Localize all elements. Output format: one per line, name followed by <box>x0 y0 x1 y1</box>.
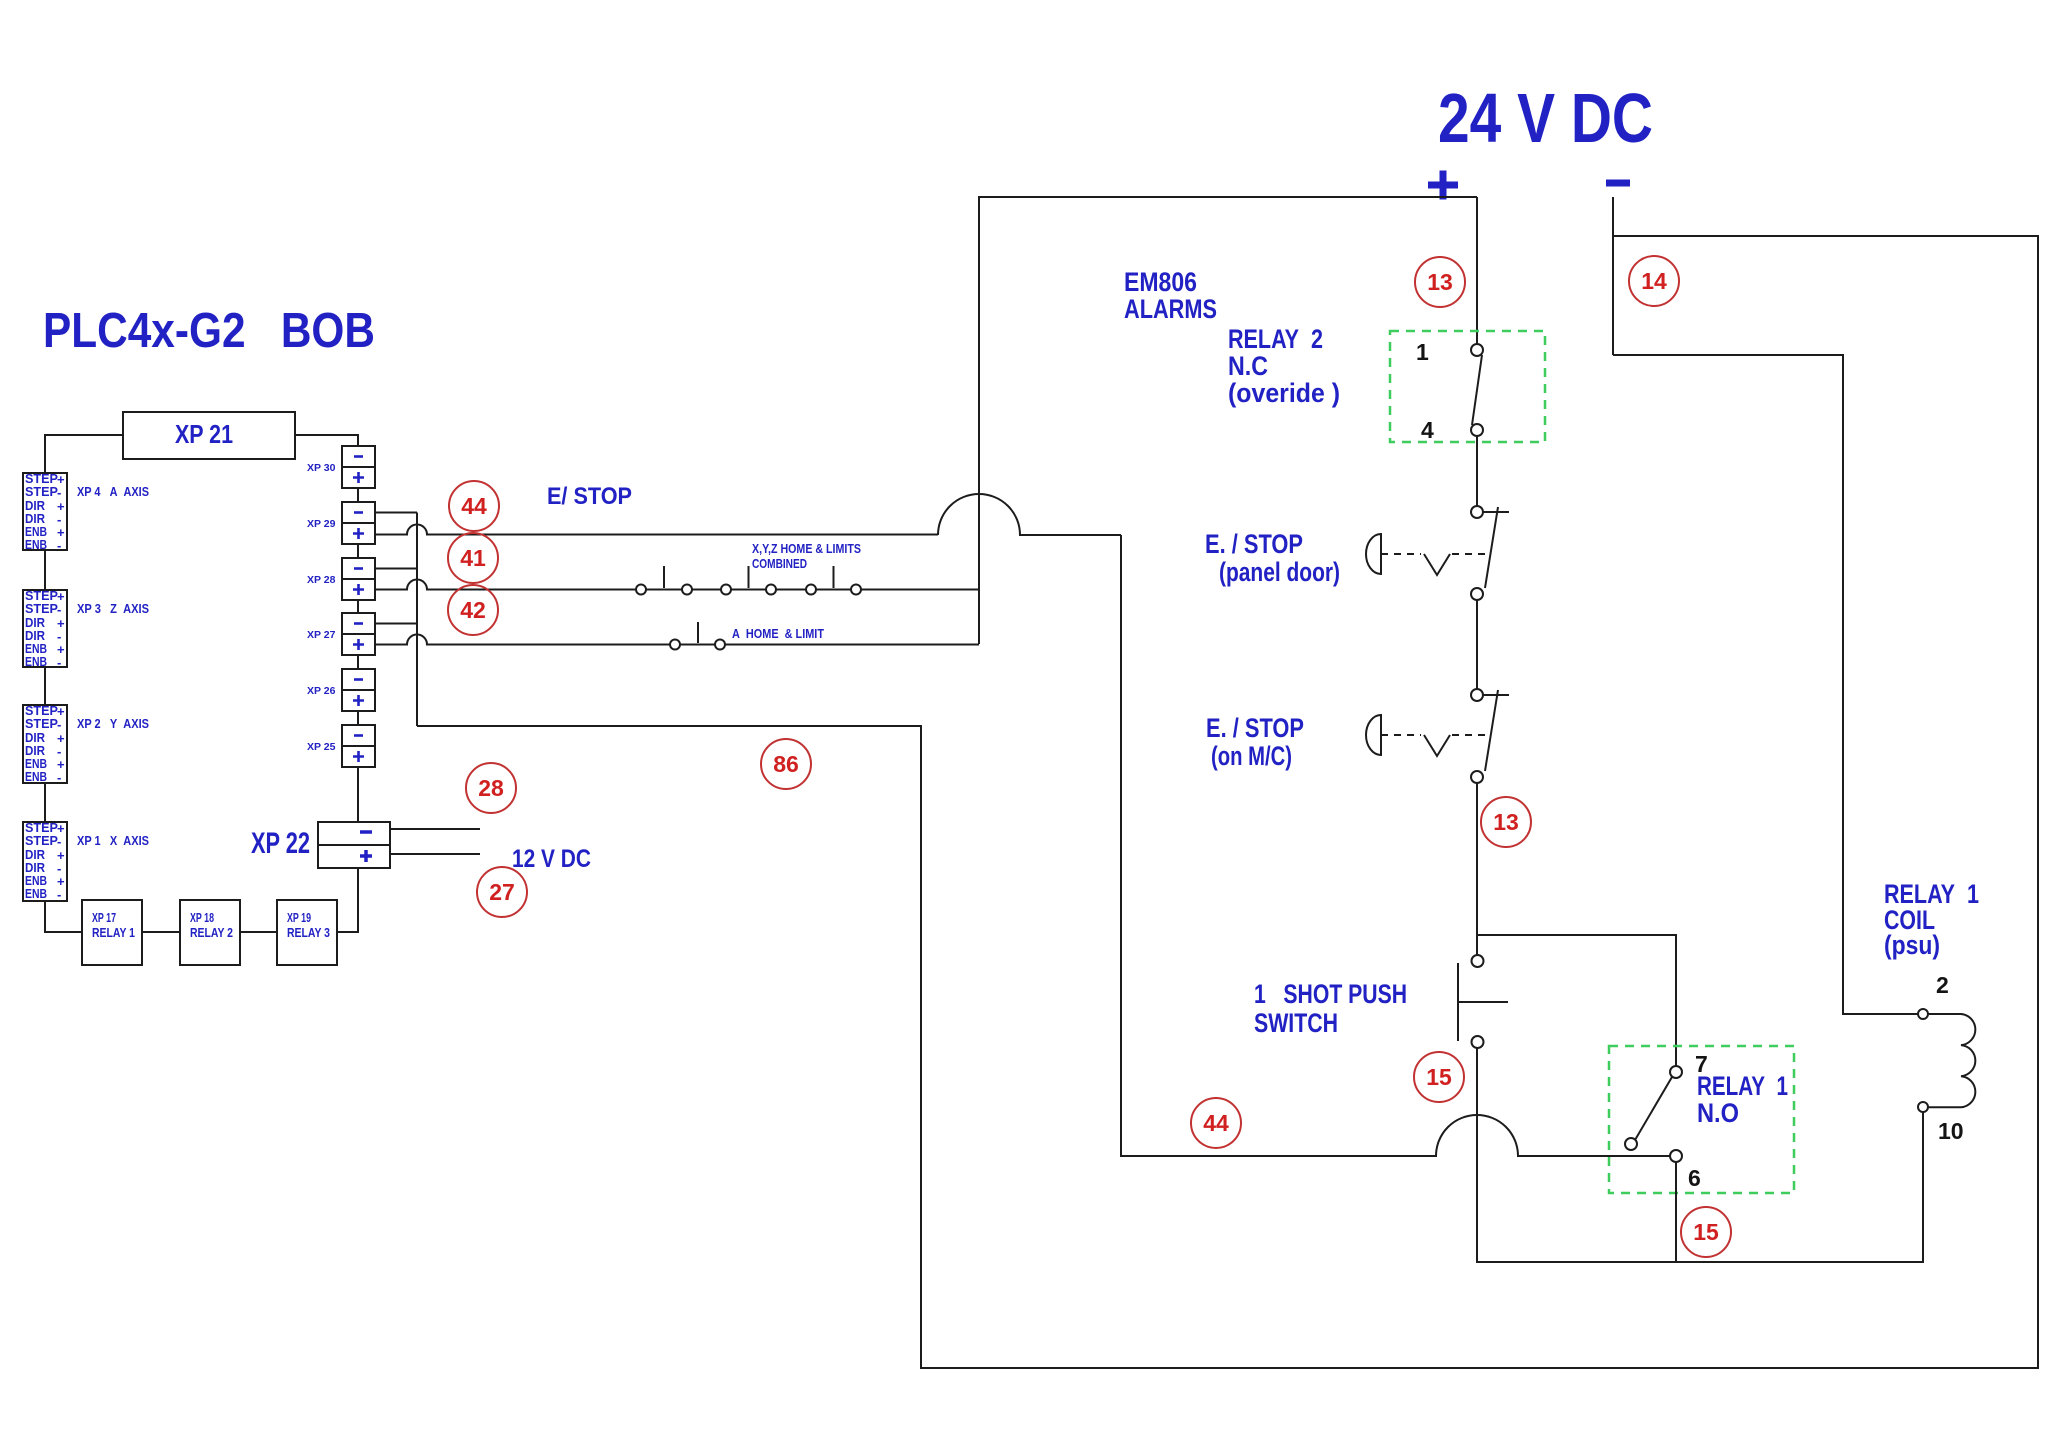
svg-text:XP 30: XP 30 <box>307 462 336 474</box>
wire E/STOP net down and to relay1 contact 6 with hop <box>1121 535 1670 1156</box>
wire XP1 to XP17 <box>45 901 82 932</box>
wire XP28 minus to riser <box>375 568 417 570</box>
svg-text:27: 27 <box>489 879 515 905</box>
connector XP21 <box>123 412 295 459</box>
svg-text:86: 86 <box>773 751 799 777</box>
svg-text:ENB: ENB <box>25 537 47 552</box>
relay 2 N.C contact <box>1471 344 1483 436</box>
svg-text:COMBINED: COMBINED <box>752 556 807 571</box>
wire XP27 minus to riser <box>375 623 417 625</box>
switch A home/limit contact <box>670 622 725 650</box>
svg-text:1 SHOT PUSH: 1 SHOT PUSH <box>1254 979 1407 1009</box>
svg-text:RELAY 2: RELAY 2 <box>1228 324 1323 354</box>
terminal XP26 <box>307 669 375 711</box>
svg-text:14: 14 <box>1641 268 1667 294</box>
svg-text:44: 44 <box>461 493 487 519</box>
svg-text:10: 10 <box>1938 1118 1964 1144</box>
svg-text:XP 2 Y AXIS: XP 2 Y AXIS <box>77 716 149 731</box>
svg-text:(panel door): (panel door) <box>1219 557 1340 587</box>
svg-text:4: 4 <box>1421 417 1434 443</box>
svg-text:XP 1 X AXIS: XP 1 X AXIS <box>77 833 149 848</box>
wire ref 13 lower <box>1481 797 1531 847</box>
wire XP27 to XP26 <box>357 655 359 669</box>
connector XP3 Z AXIS <box>23 588 67 670</box>
svg-text:1: 1 <box>1416 339 1429 365</box>
wire ref 86 <box>761 739 811 789</box>
connector XP2 Y AXIS <box>23 703 67 785</box>
svg-text:7: 7 <box>1695 1051 1708 1077</box>
wire relay1 contact 6 down to bottom rail <box>1675 1162 1677 1262</box>
wire E/STOP net hop over +riser at x979 <box>938 494 1121 535</box>
svg-text:(on M/C): (on M/C) <box>1211 741 1292 771</box>
switch X home/limit contact a <box>636 566 692 595</box>
wire XP18 to XP19 <box>240 931 277 933</box>
wire XP3 to XP2 <box>44 667 46 705</box>
svg-text:13: 13 <box>1427 269 1453 295</box>
svg-text:RELAY 2: RELAY 2 <box>190 926 233 940</box>
svg-text:N.O: N.O <box>1697 1098 1739 1128</box>
relay 1 N.O contact box (green dashed) <box>1609 1046 1794 1193</box>
svg-text:XP 29: XP 29 <box>307 518 336 530</box>
wire XP22 minus stub <box>390 828 480 830</box>
svg-text:XP 3 Z AXIS: XP 3 Z AXIS <box>77 601 149 616</box>
wire XP17 to XP18 <box>142 931 180 933</box>
svg-text:-: - <box>57 602 61 617</box>
E/STOP on M/C mushroom head <box>1366 715 1381 755</box>
svg-text:12 V DC: 12 V DC <box>512 845 591 873</box>
svg-text:E. / STOP: E. / STOP <box>1205 529 1303 559</box>
svg-text:-: - <box>57 485 61 500</box>
svg-text:XP 19: XP 19 <box>287 911 311 925</box>
svg-text:XP 25: XP 25 <box>307 741 336 753</box>
wire ref 27 <box>477 867 527 917</box>
svg-text:STEP: STEP <box>25 833 58 848</box>
wire branch to relay1 contact 7 <box>1477 935 1676 1066</box>
svg-text:6: 6 <box>1688 1165 1701 1191</box>
svg-text:PLC4x-G2 BOB: PLC4x-G2 BOB <box>43 303 375 358</box>
wire ref 14 <box>1629 256 1679 306</box>
connector XP4 A AXIS <box>23 471 67 553</box>
wire ref 28 <box>466 763 516 813</box>
svg-text:13: 13 <box>1493 809 1519 835</box>
wire negative return from riser to bottom rail <box>417 236 2038 1368</box>
svg-text:XP 21: XP 21 <box>175 419 233 449</box>
wire panel door to on M/C switch <box>1476 600 1478 689</box>
relay 1 N.O contact <box>1625 1066 1682 1162</box>
svg-text:XP 28: XP 28 <box>307 574 336 586</box>
svg-text:E/ STOP: E/ STOP <box>547 483 632 510</box>
wire ref 44 (E/STOP at XP29) <box>449 481 499 531</box>
connector XP22 12V <box>318 822 390 868</box>
svg-text:RELAY 1: RELAY 1 <box>92 926 135 940</box>
E/STOP on M/C linkage dashed <box>1381 734 1421 736</box>
svg-text:42: 42 <box>460 597 486 623</box>
wire 24V negative terminal drop <box>1612 197 1614 355</box>
svg-text:ALARMS: ALARMS <box>1124 294 1217 324</box>
wire common negative riser <box>416 513 418 727</box>
wire relay2 to E/STOP panel door switch <box>1476 436 1478 506</box>
wire E/STOP net from XP29 plus with hop over riser <box>375 525 938 535</box>
svg-text:-: - <box>57 834 61 849</box>
wire on M/C switch down to push switch node <box>1476 783 1478 955</box>
relay 1 coil windings <box>1928 1014 1975 1107</box>
wire XP22 plus stub <box>390 853 480 855</box>
E/STOP on M/C switch <box>1471 689 1509 783</box>
wire XP25 to XP22 <box>357 767 359 822</box>
switch Z home/limit contact c <box>806 566 861 595</box>
terminal XP30 <box>307 446 375 488</box>
svg-text:44: 44 <box>1203 1110 1229 1136</box>
wire ref 42 <box>448 585 498 635</box>
svg-text:24 V DC: 24 V DC <box>1438 79 1653 157</box>
wire ref 44 lower <box>1191 1098 1241 1148</box>
svg-text:15: 15 <box>1693 1219 1719 1245</box>
svg-text:XP 18: XP 18 <box>190 911 214 925</box>
relay 1 coil terminal 2 <box>1918 1009 1928 1019</box>
connector XP19 RELAY 3 <box>277 900 337 965</box>
svg-text:XP 22: XP 22 <box>251 827 310 860</box>
svg-text:ENB: ENB <box>25 654 47 669</box>
svg-text:STEP: STEP <box>25 716 58 731</box>
svg-text:STEP: STEP <box>25 601 58 616</box>
terminal XP29 <box>307 502 375 544</box>
wire ref 41 <box>448 533 498 583</box>
svg-text:(psu): (psu) <box>1884 930 1940 960</box>
terminal XP28 <box>307 558 375 600</box>
wire XP2 to XP1 <box>44 783 46 822</box>
wire XP28 to XP27 <box>357 600 359 613</box>
wire A home net from XP27 plus with hop <box>375 635 979 645</box>
terminal XP27 <box>307 613 375 655</box>
svg-text:2: 2 <box>1936 972 1949 998</box>
terminal - of 24V supply <box>1606 180 1630 187</box>
E/STOP panel door mushroom head <box>1366 534 1381 574</box>
push switch contacts <box>1458 955 1508 1048</box>
wire XYZ limits net from XP28 plus with hop <box>375 580 979 590</box>
svg-text:E. / STOP: E. / STOP <box>1206 713 1304 743</box>
svg-text:-: - <box>57 770 61 785</box>
svg-text:(overide ): (overide ) <box>1228 378 1340 408</box>
svg-text:EM806: EM806 <box>1124 267 1197 297</box>
relay 2 N.C contact box (green dashed) <box>1390 331 1545 442</box>
connector XP17 RELAY 1 <box>82 900 142 965</box>
wire XP30 to XP29 <box>357 488 359 502</box>
svg-text:XP 17: XP 17 <box>92 911 116 925</box>
svg-text:15: 15 <box>1426 1064 1452 1090</box>
wire ref 15 at relay1 <box>1681 1207 1731 1257</box>
wire positive drop to relay2 contact <box>1476 197 1478 344</box>
wire push switch bottom to bottom rail <box>1477 1048 1923 1262</box>
svg-text:-: - <box>57 717 61 732</box>
svg-text:STEP: STEP <box>25 484 58 499</box>
svg-text:-: - <box>57 655 61 670</box>
wire XP19 to XP22 <box>337 868 358 932</box>
svg-text:RELAY 1: RELAY 1 <box>1697 1071 1788 1101</box>
svg-text:A HOME & LIMIT: A HOME & LIMIT <box>732 626 824 641</box>
wire XP29 minus to common negative riser <box>375 512 417 514</box>
wire ref 13 top <box>1415 257 1465 307</box>
wire 24V positive rail <box>979 197 1477 644</box>
svg-text:SWITCH: SWITCH <box>1254 1008 1338 1038</box>
switch Y home/limit contact b <box>721 566 776 595</box>
svg-text:41: 41 <box>460 545 486 571</box>
svg-text:-: - <box>57 538 61 553</box>
wire ref 15 at push switch <box>1414 1052 1464 1102</box>
svg-text:ENB: ENB <box>25 886 47 901</box>
svg-text:RELAY 3: RELAY 3 <box>287 926 330 940</box>
svg-text:XP 4 A AXIS: XP 4 A AXIS <box>77 484 149 499</box>
wire coil terminal2 to negative rail <box>1613 355 1918 1014</box>
svg-text:N.C: N.C <box>1228 351 1268 381</box>
terminal XP25 <box>307 725 375 767</box>
svg-text:X,Y,Z HOME & LIMITS: X,Y,Z HOME & LIMITS <box>752 541 861 556</box>
svg-text:XP 27: XP 27 <box>307 629 336 641</box>
relay 1 coil terminal 10 <box>1918 1102 1928 1112</box>
connector XP18 RELAY 2 <box>180 900 240 965</box>
wire XP21 to XP30 <box>295 435 358 446</box>
svg-text:ENB: ENB <box>25 769 47 784</box>
wire XP4 to XP3 <box>44 550 46 590</box>
connector XP1 X AXIS <box>23 820 67 902</box>
svg-text:-: - <box>57 887 61 902</box>
svg-text:XP 26: XP 26 <box>307 685 336 697</box>
wire XP26 to XP25 <box>357 711 359 725</box>
wire XP29 to XP28 <box>357 544 359 558</box>
wire XP21 to XP4 <box>45 435 123 473</box>
terminal + of 24V supply <box>1428 171 1458 200</box>
E/STOP panel door switch <box>1471 506 1509 600</box>
E/STOP panel door linkage dashed <box>1381 553 1421 555</box>
svg-text:28: 28 <box>478 775 504 801</box>
